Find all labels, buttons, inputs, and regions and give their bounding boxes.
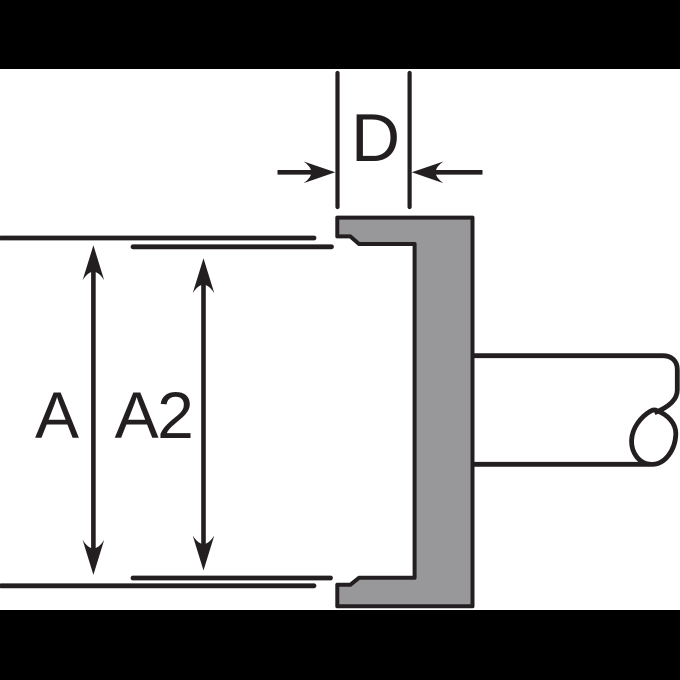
A2 top extension line: [133, 244, 332, 249]
D arrow right (pointing left): [412, 162, 483, 184]
D extension line right: [408, 73, 412, 207]
A2 dimension arrow (vertical, double-headed): [193, 258, 215, 570]
D extension line left: [335, 73, 339, 207]
A2 bottom extension line: [133, 576, 331, 581]
svg-text:A: A: [35, 378, 79, 452]
svg-text:D: D: [351, 100, 400, 176]
bottom black bar: [0, 610, 680, 680]
A top extension line: [1, 236, 314, 241]
shaft outline: [471, 356, 678, 465]
A bottom extension line: [1, 583, 314, 588]
top black bar: [0, 0, 680, 69]
A dimension arrow (vertical, double-headed): [83, 245, 105, 575]
svg-text:A2: A2: [115, 378, 193, 452]
D arrow left (pointing right): [278, 162, 336, 184]
gray bracket body: [337, 218, 472, 607]
